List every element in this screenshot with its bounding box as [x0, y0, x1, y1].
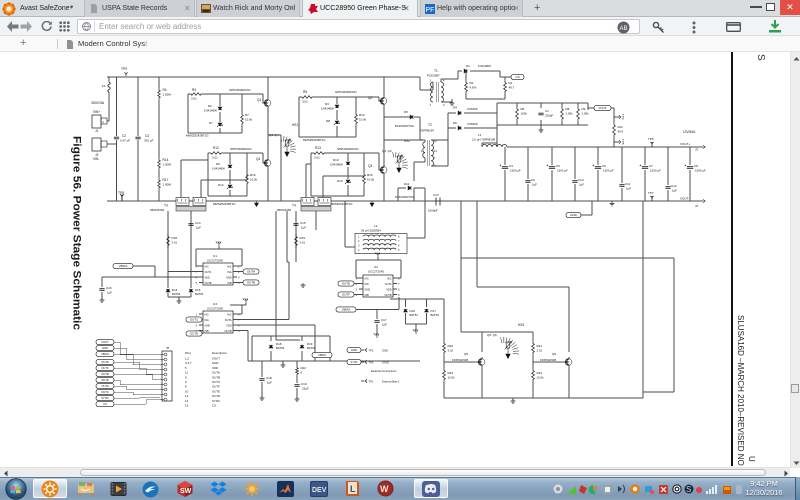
svg-text:R23: R23 — [448, 371, 454, 375]
svg-text:1500 µF: 1500 µF — [650, 169, 661, 173]
svg-text:CS: CS — [515, 75, 519, 79]
ground C18 — [260, 396, 265, 400]
svg-text:C4: C4 — [509, 164, 513, 168]
svg-text:10: 10 — [185, 389, 189, 393]
wire Q4 source to bus — [267, 168, 269, 201]
svg-text:1.00M: 1.00M — [163, 93, 172, 97]
svg-text:1500 µF: 1500 µF — [695, 169, 706, 173]
svg-text:BAT54: BAT54 — [276, 346, 285, 350]
capacitor C15 — [295, 214, 297, 234]
svg-text:INB: INB — [205, 330, 210, 333]
svg-text:SYNC: SYNC — [212, 399, 220, 403]
capacitor C5 — [551, 147, 553, 201]
svg-text:MURS360T3G: MURS360T3G — [395, 124, 415, 128]
menu dots — [692, 21, 696, 34]
wire R14-R17 — [158, 170, 160, 178]
svg-text:Q5: Q5 — [464, 352, 468, 356]
svg-text:TP7: TP7 — [648, 191, 654, 195]
svg-text:D7: D7 — [209, 121, 213, 125]
resistor R20 — [443, 341, 446, 355]
svg-text:D4: D4 — [453, 106, 457, 110]
address bar — [77, 19, 640, 34]
ground C16 — [100, 298, 105, 302]
hscroll left arrow — [3, 470, 8, 477]
svg-text:OUTB: OUTB — [225, 330, 232, 333]
show desktop — [795, 477, 800, 500]
svg-text:R18: R18 — [172, 236, 178, 240]
diode D14 BAT54 — [167, 277, 169, 288]
capacitor C1 — [538, 113, 543, 115]
svg-text:OUTD: OUTD — [212, 394, 220, 398]
svg-text:VDD: VDD — [212, 366, 218, 370]
resistor R19 — [295, 234, 298, 248]
svg-text:INB: INB — [365, 294, 370, 297]
svg-text:14: 14 — [185, 399, 189, 403]
svg-text:D5: D5 — [404, 110, 408, 114]
svg-text:Description: Description — [212, 351, 227, 355]
svg-text:D9: D9 — [216, 162, 220, 166]
net label CS — [511, 74, 524, 79]
svg-text:INA: INA — [205, 319, 210, 322]
wire VOUT+ bus — [507, 146, 700, 148]
diode D18 BAT54 — [269, 345, 273, 348]
diode D15 BAT54 — [189, 289, 193, 292]
svg-text:OUTC: OUTC — [101, 390, 109, 394]
svg-text:VOUT+: VOUT+ — [680, 142, 690, 146]
svg-text:VBIAS: VBIAS — [101, 352, 109, 356]
diode D19 BAT54 — [300, 345, 304, 348]
svg-text:13: 13 — [185, 404, 189, 408]
tab 3 active UCC28950 — [302, 0, 418, 17]
ground flag U2 — [375, 252, 380, 257]
address separator — [94, 21, 95, 32]
svg-text:1.00M: 1.00M — [163, 183, 172, 187]
svg-text:U1: U1 — [213, 254, 217, 258]
svg-text:SYNC: SYNC — [351, 361, 358, 364]
svg-text:3.01: 3.01 — [191, 97, 197, 101]
svg-text:1N4148W: 1N4148W — [330, 163, 343, 167]
active avast safezone app box — [33, 479, 67, 498]
svg-text:D1: D1 — [466, 64, 470, 68]
svg-text:D2: D2 — [208, 104, 212, 108]
ground sync bus — [512, 398, 514, 400]
svg-text:OUTE: OUTE — [342, 282, 350, 286]
taskbar icon media player — [110, 481, 127, 497]
svg-text:BAT54: BAT54 — [195, 292, 204, 296]
svg-text:R6: R6 — [521, 107, 525, 111]
net label VBIAS mid — [336, 307, 356, 312]
ground D14 D15 — [178, 297, 180, 300]
svg-text:3.01: 3.01 — [302, 100, 308, 104]
test point TP4 — [614, 115, 621, 118]
svg-text:1500 µF: 1500 µF — [603, 169, 614, 173]
svg-text:SW: SW — [180, 488, 192, 495]
svg-text:48.7: 48.7 — [509, 86, 515, 90]
svg-text:TP6: TP6 — [648, 137, 654, 141]
svg-text:3.01: 3.01 — [300, 241, 306, 245]
globe icon — [82, 22, 91, 31]
scrollbar up arrow — [793, 56, 800, 61]
svg-text:OUTA: OUTA — [247, 270, 255, 274]
svg-text:4.87k: 4.87k — [470, 86, 478, 90]
back arrow — [6, 21, 19, 32]
svg-text:C19: C19 — [301, 382, 307, 386]
svg-text:2.01: 2.01 — [537, 349, 543, 353]
resistor R21 — [532, 341, 535, 355]
svg-text:1000pF: 1000pF — [428, 209, 438, 213]
svg-text:OUTB: OUTB — [247, 281, 255, 285]
svg-text:OUTF: OUTF — [101, 366, 109, 370]
svg-text:External Connections: External Connections — [371, 369, 397, 373]
wire J1 to fuse — [107, 117, 109, 121]
svg-text:R14: R14 — [163, 158, 169, 162]
svg-text:VOUT-: VOUT- — [680, 197, 689, 201]
svg-text:L: L — [350, 484, 356, 494]
svg-text:1µF: 1µF — [196, 226, 201, 230]
svg-text:N/C: N/C — [205, 314, 210, 317]
svg-text:Figure 56. Power Stage Schema: Figure 56. Power Stage Schematic — [71, 136, 83, 330]
svg-text:BAT54: BAT54 — [172, 292, 181, 296]
svg-text:S: S — [755, 54, 766, 61]
svg-text:4: 4 — [356, 293, 358, 297]
wire U1 OUTA OUTB to T3 — [168, 271, 203, 273]
svg-text:TP1: TP1 — [369, 380, 374, 384]
wire Q1 gate network — [188, 94, 263, 133]
svg-text:N/C: N/C — [227, 314, 232, 317]
wire top bus — [107, 77, 429, 90]
connector J2 — [92, 138, 101, 151]
wire D16 D17 common — [406, 324, 427, 330]
svg-text:W: W — [380, 484, 389, 494]
svg-text:C11: C11 — [625, 182, 631, 186]
svg-text:OUTD: OUTD — [101, 378, 109, 382]
svg-text:3.01: 3.01 — [448, 349, 454, 353]
svg-text:VOUT: VOUT — [101, 340, 109, 344]
svg-text:J1: J1 — [95, 129, 99, 133]
svg-text:TP5: TP5 — [621, 139, 625, 145]
svg-text:UCC27324D: UCC27324D — [207, 307, 223, 311]
svg-text:GND: GND — [570, 213, 578, 217]
hscroll thumb — [80, 469, 766, 477]
svg-text:D3: D3 — [325, 102, 329, 106]
svg-text:UCC27324D: UCC27324D — [207, 259, 223, 263]
svg-text:3: 3 — [443, 103, 445, 107]
ground C19 — [295, 397, 300, 401]
svg-text:OUTA: OUTA — [225, 319, 232, 322]
resistor R16 — [246, 153, 248, 172]
wire T2 primary — [414, 140, 425, 181]
bookmark icon — [66, 40, 74, 49]
svg-text:TP3: TP3 — [369, 361, 374, 365]
net label VOUT — [594, 105, 611, 110]
svg-text:C6: C6 — [602, 164, 606, 168]
svg-text:C12: C12 — [671, 184, 677, 188]
svg-text:OUTB: OUTB — [212, 375, 220, 379]
svg-text:1.00k: 1.00k — [566, 112, 574, 116]
taskbar icon W — [377, 480, 394, 497]
svg-text:C8: C8 — [694, 164, 698, 168]
wire Q1 drain-source — [267, 77, 269, 158]
svg-text:SPP20N60CFD: SPP20N60CFD — [230, 147, 252, 151]
scrollbar thumb — [791, 384, 800, 393]
wire harness to J5 — [114, 342, 160, 404]
svg-text:1N4148W: 1N4148W — [204, 109, 217, 113]
wire R4-R14 — [158, 100, 160, 158]
grid menu icon — [59, 21, 70, 32]
svg-text:TP9: TP9 — [121, 67, 127, 71]
svg-text:GND: GND — [351, 348, 357, 352]
svg-text:1.00k: 1.00k — [582, 112, 590, 116]
svg-text:8: 8 — [185, 385, 187, 389]
resistor R7 — [241, 94, 243, 112]
svg-text:N/C: N/C — [365, 278, 370, 281]
svg-text:GND: GND — [212, 361, 218, 365]
resistor R17 — [158, 178, 161, 190]
svg-text:VDD: VDD — [386, 289, 391, 292]
wire Q3 gate network — [311, 153, 379, 196]
svg-text:OUTA: OUTA — [385, 283, 392, 286]
svg-text:L2: L2 — [374, 224, 378, 228]
svg-text:10.0k: 10.0k — [367, 178, 375, 182]
svg-text:T4: T4 — [292, 204, 296, 208]
svg-text:R3: R3 — [192, 88, 196, 92]
window close — [780, 0, 800, 15]
svg-text:5: 5 — [238, 329, 240, 333]
wire Q2 gate network — [299, 97, 379, 137]
svg-text:6: 6 — [185, 380, 187, 384]
tab 1 USPA State Records — [84, 0, 195, 17]
svg-text:300V/3A: 300V/3A — [91, 101, 105, 105]
svg-text:D13: D13 — [337, 179, 343, 183]
resistor R1 — [504, 77, 506, 80]
adblock circle icon — [617, 21, 630, 34]
resistor R14 — [158, 158, 161, 170]
net label SYNC lower — [347, 359, 361, 364]
wire U3 top loop — [230, 305, 242, 314]
svg-text:7: 7 — [238, 318, 240, 322]
diode D17 BAT54 — [426, 299, 428, 307]
wire T4 secondary risers — [306, 164, 364, 198]
resistor R8 — [561, 106, 564, 122]
svg-text:SPP20N60CFD: SPP20N60CFD — [229, 88, 251, 92]
net label VBIAS left — [113, 263, 133, 268]
net label OUTA — [237, 271, 243, 273]
svg-text:5: 5 — [398, 293, 400, 297]
wire sync rect frame — [444, 201, 643, 398]
test point TP9 — [124, 72, 127, 76]
ground arrow left block — [255, 201, 259, 207]
svg-text:MMSZ5242BT1G: MMSZ5242BT1G — [213, 202, 236, 206]
bookmark add plus — [20, 36, 26, 52]
net label OUTD — [186, 331, 202, 336]
svg-text:2: 2 — [430, 79, 432, 83]
window minimize — [750, 5, 762, 8]
card icon — [726, 22, 741, 32]
svg-text:Q1: Q1 — [257, 98, 261, 102]
svg-text:R9: R9 — [582, 107, 586, 111]
svg-text:T2: T2 — [428, 123, 432, 127]
svg-text:SPP20N60CFD: SPP20N60CFD — [335, 90, 357, 94]
wire J2 to bottom bus — [107, 143, 117, 145]
wire Q5 source — [481, 367, 483, 398]
net label VBIAS right — [312, 352, 332, 357]
wire T2 secondary taps — [431, 113, 456, 166]
thermistor HS2 — [397, 156, 401, 162]
taskbar icon dropbox — [210, 481, 227, 497]
svg-text:1N4148W: 1N4148W — [321, 107, 334, 111]
svg-text:GND: GND — [382, 349, 388, 353]
svg-text:PF: PF — [426, 7, 435, 14]
svg-text:D11: D11 — [404, 182, 410, 186]
capacitor C3 — [135, 137, 140, 139]
resistor R4 — [158, 88, 161, 100]
net label column J5 inputs — [96, 339, 114, 344]
svg-text:VBIAS: VBIAS — [318, 353, 326, 357]
svg-text:C5: C5 — [556, 164, 560, 168]
svg-text:330 µF: 330 µF — [144, 139, 154, 143]
connector J1 — [92, 115, 101, 128]
wire mid routing verticals — [276, 211, 300, 340]
svg-text:OUTB: OUTB — [101, 372, 109, 376]
svg-text:C16: C16 — [106, 286, 112, 290]
wire Q6 source — [568, 367, 570, 398]
svg-text:3: 3 — [196, 324, 198, 328]
svg-text:MMSZ5242BT1G: MMSZ5242BT1G — [303, 138, 326, 142]
resistor R2 — [465, 71, 467, 80]
svg-text:Q1, Q2: Q1, Q2 — [382, 149, 392, 153]
svg-text:HS3: HS3 — [518, 323, 524, 327]
svg-text:1µF: 1µF — [626, 187, 631, 191]
svg-text:C7: C7 — [649, 164, 653, 168]
wire sync loop upper — [461, 258, 674, 392]
net label OUTE — [338, 281, 354, 286]
taskbar icon matlab — [277, 481, 294, 497]
svg-text:C15: C15 — [300, 221, 306, 225]
vertical scrollbar — [790, 52, 800, 468]
resistor R24 — [532, 368, 535, 382]
resistor R22 — [296, 361, 298, 366]
svg-text:FDP032N08: FDP032N08 — [452, 358, 468, 362]
capacitor C11 — [621, 147, 623, 201]
svg-text:R19: R19 — [300, 236, 306, 240]
svg-text:SPP20N60CFD: SPP20N60CFD — [337, 147, 359, 151]
svg-text:4: 4 — [238, 281, 240, 285]
svg-text:L1: L1 — [478, 133, 482, 137]
svg-text:R13: R13 — [315, 146, 321, 150]
svg-text:R1: R1 — [509, 81, 513, 85]
ground D18 box — [282, 361, 284, 364]
svg-text:J5: J5 — [166, 346, 170, 350]
svg-text:Pins: Pins — [185, 351, 191, 355]
wire U2 top loop — [356, 260, 401, 278]
svg-text:1: 1 — [421, 149, 423, 153]
capacitor C18 — [261, 361, 263, 397]
capacitor C4 — [504, 147, 506, 201]
svg-text:OUTA: OUTA — [205, 271, 212, 274]
capacitor C19 — [296, 376, 298, 398]
svg-text:OUTF: OUTF — [212, 385, 220, 389]
wire T1 secondary to CS — [441, 71, 462, 82]
svg-text:26 µH 2025954: 26 µH 2025954 — [361, 229, 381, 233]
svg-text:R4: R4 — [163, 88, 167, 92]
ground C17 — [374, 333, 379, 338]
wire D14 D15 common — [168, 293, 191, 297]
svg-text:10.0k: 10.0k — [537, 376, 545, 380]
svg-text:75PR8187: 75PR8187 — [420, 129, 435, 133]
svg-text:49.9: 49.9 — [618, 130, 624, 134]
windows taskbar — [0, 477, 800, 500]
resistor R10 — [355, 97, 357, 112]
svg-text:T1: T1 — [434, 69, 438, 73]
svg-text:3.01: 3.01 — [172, 241, 178, 245]
new tab plus — [534, 0, 540, 16]
svg-text:6: 6 — [398, 288, 400, 292]
svg-text:VIN+: VIN+ — [93, 110, 100, 114]
svg-text:S: S — [686, 485, 691, 494]
taskbar icon openoffice — [142, 481, 159, 498]
wire U3 outputs routing — [237, 262, 315, 361]
test point TP5 — [614, 140, 621, 143]
net label GND output — [566, 212, 581, 217]
svg-text:3.01: 3.01 — [212, 156, 218, 160]
svg-text:External Bias 1: External Bias 1 — [382, 380, 400, 384]
wire L2 connections — [345, 201, 425, 247]
svg-text:N/C: N/C — [205, 266, 210, 269]
svg-text:1.00M: 1.00M — [163, 163, 172, 167]
svg-text:1µF: 1µF — [382, 323, 387, 327]
svg-text:U3: U3 — [213, 302, 217, 306]
svg-text:1: 1 — [196, 313, 198, 317]
svg-text:3,4,7: 3,4,7 — [185, 361, 192, 365]
resistor R18 — [167, 234, 170, 248]
scrollbar down arrow — [793, 461, 800, 466]
thermistor HS3 — [506, 342, 510, 348]
forward arrow — [20, 21, 33, 32]
svg-text:GND: GND — [102, 346, 108, 350]
svg-text:1µF: 1µF — [301, 226, 306, 230]
taskbar icon workbench — [77, 481, 95, 497]
browser tab bar — [0, 0, 800, 17]
svg-text:AB: AB — [619, 26, 627, 32]
svg-text:J4: J4 — [695, 204, 698, 208]
resistor R15 — [363, 153, 365, 172]
svg-text:0: 0 — [301, 371, 303, 375]
taskbar icon dev-c++ — [310, 481, 328, 497]
svg-text:1µF: 1µF — [107, 291, 112, 295]
svg-text:R8: R8 — [566, 107, 570, 111]
wire U1 top loop — [196, 249, 242, 266]
avast safezone button — [2, 2, 16, 16]
capacitor C17 — [376, 310, 378, 335]
start orb — [5, 478, 27, 500]
svg-text:C13: C13 — [433, 193, 439, 197]
svg-text:Q3: Q3 — [368, 164, 372, 168]
svg-text:8: 8 — [238, 313, 240, 317]
thermistor HS1 — [285, 140, 289, 146]
svg-text:R11: R11 — [618, 125, 624, 129]
ground D16 D17 — [413, 329, 418, 334]
svg-text:VIN-: VIN- — [93, 157, 99, 161]
svg-text:3: 3 — [356, 288, 358, 292]
window maximize — [766, 3, 775, 11]
svg-text:PCE3687: PCE3687 — [427, 74, 440, 78]
svg-text:OUTB: OUTB — [205, 282, 212, 285]
svg-text:3: 3 — [238, 276, 240, 280]
tray icons — [553, 483, 743, 495]
svg-text:C1: C1 — [545, 109, 549, 113]
wire D11 node vertical — [424, 188, 426, 238]
svg-text:SLUSA16D –MARCH 2010–REVISED N: SLUSA16D –MARCH 2010–REVISED NOV — [736, 315, 745, 466]
